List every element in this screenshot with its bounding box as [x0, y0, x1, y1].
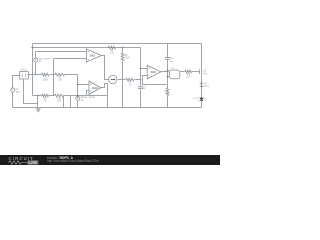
wire: [168, 76, 170, 78]
svg-text:LAB: LAB: [28, 160, 37, 165]
source V1: [11, 88, 15, 92]
svg-text:OA1: OA1: [90, 54, 96, 58]
CircuitLab logo: [9, 156, 34, 161]
op-amp OA3: [147, 65, 161, 79]
wire: [167, 44, 169, 58]
ammeter AM1: [109, 75, 117, 83]
ground: [36, 109, 40, 113]
node I: [140, 68, 142, 70]
wire: [53, 59, 55, 96]
wire: [201, 101, 203, 108]
node J: [167, 71, 169, 73]
op-amp OA1: [86, 49, 101, 62]
wire: [49, 95, 55, 97]
diode D1: [200, 98, 204, 101]
wire: [180, 71, 185, 73]
resistor R1: [42, 73, 50, 76]
attribution: [47, 156, 73, 160]
capacitor C2: [165, 57, 170, 59]
wire: [63, 96, 65, 108]
wire: [167, 60, 169, 89]
node F: [77, 95, 79, 97]
wire: [33, 47, 141, 49]
capacitor C1: [138, 86, 143, 88]
wire: [54, 58, 87, 60]
resistor R8: [126, 78, 134, 81]
wire: [32, 44, 34, 96]
wire: [77, 101, 79, 108]
resistor R7: [166, 88, 169, 96]
wire: [140, 48, 142, 87]
source V3: [76, 96, 80, 100]
wire: [122, 48, 124, 54]
wire: [35, 52, 37, 59]
wire: [140, 89, 142, 108]
wire: [65, 75, 78, 99]
wire: [87, 91, 90, 96]
node L: [167, 76, 169, 78]
node K: [167, 70, 169, 72]
wire: [78, 84, 90, 86]
wire: [12, 93, 14, 108]
wire: [70, 96, 72, 108]
node H: [140, 79, 142, 81]
wire: [192, 71, 200, 73]
resistor R6: [121, 53, 124, 61]
svg-text:100k: 100k: [124, 57, 130, 60]
resistor R4: [55, 94, 64, 97]
svg-text:XTAL1: XTAL1: [21, 68, 28, 71]
wire: [33, 95, 42, 97]
resistor R3: [42, 94, 49, 97]
wire: [36, 51, 87, 53]
wire: [167, 96, 169, 108]
wire: [141, 68, 148, 70]
wire: [33, 43, 202, 45]
source V2: [34, 58, 38, 62]
resistor R9: [185, 70, 192, 73]
op-amp OA2: [89, 81, 101, 94]
svg-text:15 V: 15 V: [204, 86, 209, 88]
battery V4: [200, 82, 204, 84]
svg-text:15 V: 15 V: [16, 91, 21, 94]
wire: [13, 107, 202, 109]
wire: [35, 63, 37, 75]
node G: [77, 84, 79, 86]
wire: [102, 56, 109, 80]
wire: [64, 95, 108, 97]
node C: [35, 74, 37, 76]
svg-text:OA3: OA3: [151, 70, 157, 74]
IC U2: [169, 70, 179, 79]
svg-text:100: 100: [186, 76, 191, 79]
wire: [122, 62, 124, 108]
wire: [143, 76, 167, 85]
svg-text:100k: 100k: [43, 78, 49, 81]
wire: [13, 76, 20, 88]
node E: [37, 95, 39, 97]
resistor R5: [108, 46, 115, 49]
wire: [50, 74, 56, 76]
wire: [201, 44, 203, 98]
svg-text:OA2: OA2: [92, 86, 98, 90]
node A: [31, 47, 33, 49]
wire: [37, 96, 39, 109]
node B: [122, 47, 124, 49]
crystal X1: [19, 72, 28, 79]
wire: [161, 71, 168, 73]
wire: [29, 74, 42, 76]
wire: [101, 84, 108, 108]
wire: [135, 79, 141, 81]
wire: [24, 80, 38, 104]
resistor R2: [55, 73, 65, 76]
wire: [168, 70, 170, 72]
wire: [118, 79, 126, 81]
node D: [52, 74, 54, 76]
capacitor C3: [198, 69, 200, 74]
